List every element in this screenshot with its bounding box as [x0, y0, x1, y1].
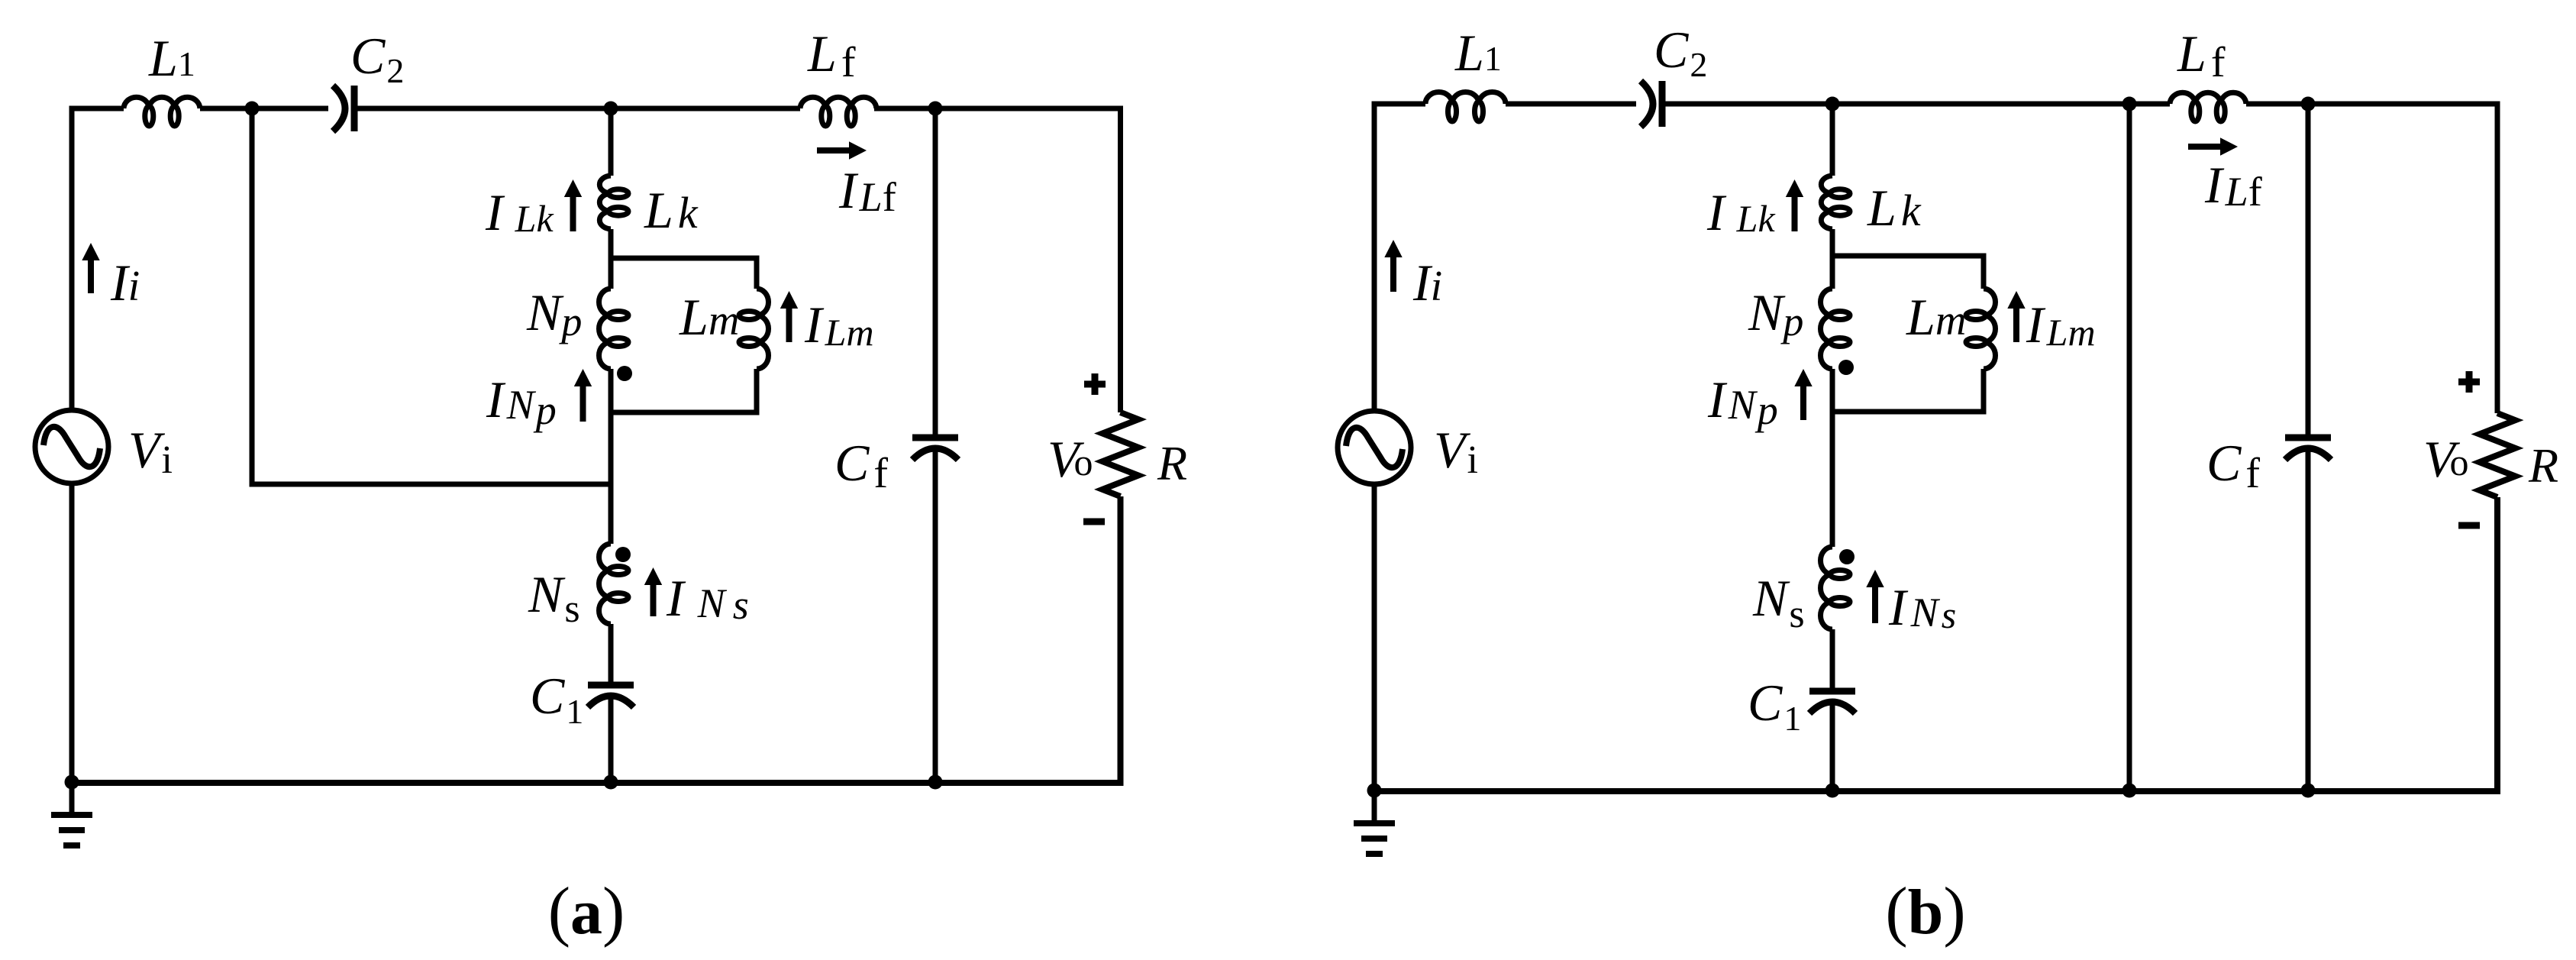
svg-text:(a): (a): [548, 874, 625, 949]
svg-text:Lm: Lm: [679, 288, 739, 346]
svg-text:Ii: Ii: [1412, 254, 1442, 312]
svg-text:(b): (b): [1885, 874, 1965, 949]
svg-text:Lm: Lm: [1906, 288, 1966, 346]
svg-text:Lk: Lk: [644, 181, 699, 239]
svg-text:R: R: [2528, 438, 2558, 493]
svg-text:Ii: Ii: [110, 254, 140, 312]
svg-text:R: R: [1157, 436, 1187, 490]
svg-text:Lk: Lk: [1867, 179, 1922, 237]
